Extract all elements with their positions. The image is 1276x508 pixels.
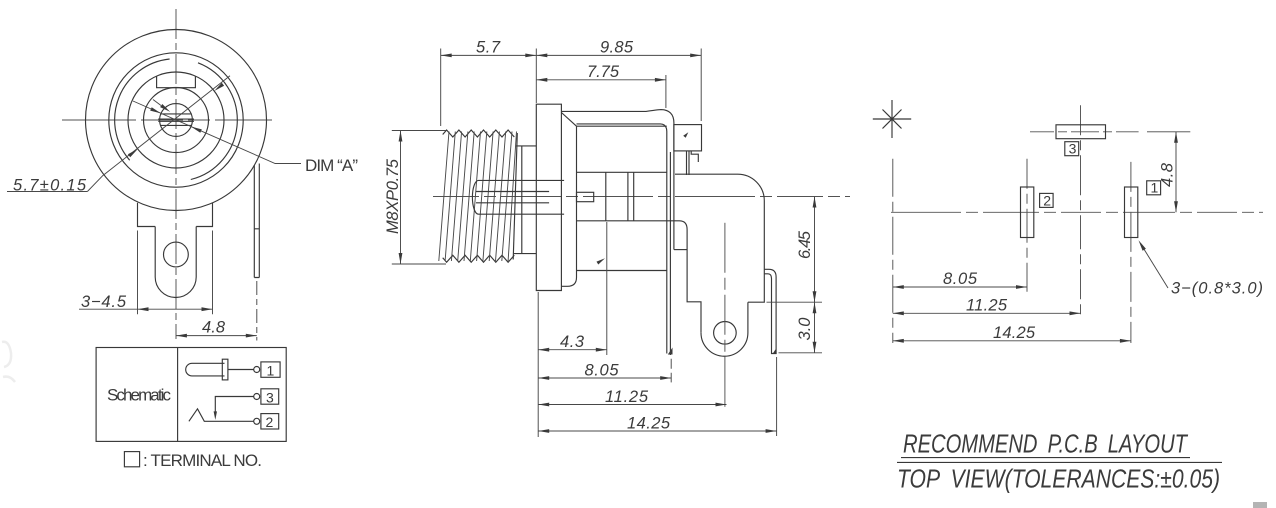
front view: lug hole bbox=[164, 242, 189, 267]
side view: thread bottom profile bbox=[443, 255, 515, 262]
side view: horizontal centerline bbox=[433, 196, 850, 198]
side view: 5.7 dimension bbox=[441, 49, 537, 127]
schematic: terminal 2 box bbox=[261, 414, 279, 429]
front view: broken arc ring right segment bbox=[191, 63, 237, 180]
side view: shell bottom tip mark bbox=[668, 348, 673, 355]
svg-text:14.25: 14.25 bbox=[993, 324, 1036, 342]
side view: 4.3 dimension bbox=[538, 349, 607, 351]
svg-text:1: 1 bbox=[1151, 180, 1159, 196]
schematic: terminal 1 circle bbox=[254, 367, 260, 373]
side view: M8XP0.75 dimension bbox=[392, 131, 446, 265]
side view: body top edge bbox=[577, 125, 667, 127]
svg-text:6.45: 6.45 bbox=[796, 230, 814, 259]
svg-text:11.25: 11.25 bbox=[966, 296, 1008, 314]
side view: lug hole bbox=[714, 322, 737, 345]
front view: pin slot lines bbox=[158, 114, 194, 126]
front view: schematic box bbox=[96, 348, 286, 442]
side view: body bottom with rounded corner bbox=[561, 271, 576, 287]
side view: internal divider lines bbox=[606, 172, 634, 220]
front view: DIM A leader line bbox=[133, 101, 301, 164]
svg-text:1: 1 bbox=[267, 362, 275, 378]
side view: 4.3 reference edge line bbox=[606, 222, 608, 355]
pcb view: terminal 1 label box bbox=[1147, 181, 1161, 195]
side view: lug centerline bbox=[724, 223, 726, 410]
pcb view: pad 3 centerline vertical bbox=[1080, 105, 1082, 319]
pcb view: pad 1 centerline bbox=[1130, 162, 1132, 343]
svg-text:Schematic: Schematic bbox=[107, 386, 172, 405]
pcb view: terminal 2 label box bbox=[1040, 193, 1054, 207]
schematic: terminal 3 box bbox=[261, 389, 279, 404]
pcb view: pad 2 bbox=[1021, 187, 1034, 238]
side view: body shoulder chamfer bbox=[561, 113, 576, 127]
front view: barrel circle (5.7 dia) bbox=[128, 72, 224, 168]
front view: schematic box divider bbox=[177, 348, 179, 442]
side view: internal chamber top bbox=[577, 171, 667, 173]
side view: 7.75 dimension bbox=[536, 75, 666, 108]
front view: center pin circle bbox=[160, 104, 193, 137]
front view: 4.8 dimension bbox=[256, 281, 258, 341]
svg-text:3−4.5: 3−4.5 bbox=[81, 293, 127, 311]
svg-text:5.7: 5.7 bbox=[476, 39, 501, 57]
front view: 5.7 dimension diagonal line bbox=[87, 76, 230, 192]
svg-text:4.8: 4.8 bbox=[1159, 162, 1177, 187]
side view: pin holder box bbox=[577, 192, 594, 201]
front view: 3-4.5 dimension bbox=[79, 231, 213, 315]
side view: back plate step bbox=[687, 151, 699, 175]
side view: 11.25 dimension bbox=[538, 404, 726, 406]
svg-text:TOP VIEW(TOLERANCES:±0.05): TOP VIEW(TOLERANCES:±0.05) bbox=[897, 464, 1220, 494]
side view: housing top edge and right side bbox=[675, 174, 764, 302]
front view: keyed insulator circle bbox=[144, 88, 209, 153]
side view: pin cavity capsule bbox=[472, 180, 564, 214]
side view: body front edge bbox=[576, 126, 578, 270]
side view: thread top profile bbox=[443, 130, 515, 137]
svg-text:: TERMINAL NO.: : TERMINAL NO. bbox=[143, 451, 262, 470]
front view: DIM A arrows bbox=[150, 107, 202, 133]
pcb view: terminal 3 label box bbox=[1065, 142, 1079, 156]
side view: internal chamber bottom bbox=[577, 221, 702, 333]
front view: 5.7 dimension arrows bbox=[128, 83, 224, 157]
side view: center pin lines bbox=[476, 192, 549, 203]
side view: internal leader arrow bbox=[597, 258, 606, 264]
pcb view: pad 1 bbox=[1125, 187, 1138, 238]
side view: terminal 3 pin edge bbox=[669, 152, 671, 355]
schematic: terminal 1 box bbox=[261, 362, 280, 377]
side view: back plate rectangle bbox=[674, 125, 702, 151]
pcb view: 4.8 dimension bbox=[1147, 132, 1190, 213]
front view: vertical centerline bbox=[175, 9, 177, 339]
svg-text:DIM “A”: DIM “A” bbox=[305, 156, 358, 175]
side view: 9.85 dimension bbox=[536, 49, 701, 122]
svg-text:11.25: 11.25 bbox=[605, 388, 649, 406]
svg-text:8.05: 8.05 bbox=[943, 270, 978, 288]
svg-text:3: 3 bbox=[1069, 141, 1077, 157]
pcb view: 14.25 dimension bbox=[893, 340, 1131, 342]
front view: keyway notch bbox=[157, 76, 196, 87]
front view: mounting lug with rounded bottom bbox=[155, 227, 196, 298]
side view: terminal 1 bent pin bbox=[764, 269, 776, 353]
svg-text:M8XP0.75: M8XP0.75 bbox=[384, 158, 402, 234]
front view: broken arc ring left segment bbox=[115, 59, 170, 160]
svg-text:14.25: 14.25 bbox=[627, 414, 671, 432]
side view: shell top inner line with bend bbox=[577, 124, 667, 354]
schematic: terminal 3 circle bbox=[254, 394, 260, 400]
schematic: spring contact symbol bbox=[189, 409, 254, 422]
side view: terminal 1 tip mark bbox=[773, 349, 776, 354]
pcb view: pad 3 bbox=[1056, 125, 1106, 139]
svg-text:RECOMMEND P.C.B LAYOUT: RECOMMEND P.C.B LAYOUT bbox=[903, 429, 1189, 459]
svg-text:2: 2 bbox=[266, 414, 274, 430]
side view: 8.05 dimension bbox=[670, 359, 672, 383]
svg-text:2: 2 bbox=[1043, 192, 1051, 208]
front view: side terminal pin bbox=[254, 164, 259, 278]
schematic: terminal 2 circle bbox=[254, 418, 260, 424]
svg-text:9.85: 9.85 bbox=[600, 39, 634, 57]
side view: thread hatch lines bbox=[439, 132, 517, 262]
svg-text:3−(0.8*3.0): 3−(0.8*3.0) bbox=[1171, 280, 1263, 298]
side view: thread runout neck bbox=[514, 146, 536, 254]
front view: inner shell circle bbox=[109, 53, 243, 187]
pcb view: pad 3 horizontal centerline bbox=[1030, 131, 1139, 133]
side view: body bottom edge bbox=[577, 270, 667, 272]
svg-text:4.8: 4.8 bbox=[202, 319, 226, 337]
side view: shell top outer line with bend bbox=[561, 110, 674, 250]
front view: horizontal centerline bbox=[62, 119, 272, 121]
side view: 3.0 dimension bbox=[813, 302, 817, 353]
side view: 14.25 dimension bbox=[538, 357, 776, 436]
side view: housing lug bbox=[701, 302, 748, 356]
svg-text:7.75: 7.75 bbox=[587, 63, 620, 81]
front view: outer body circle bbox=[86, 30, 267, 211]
terminal number legend bbox=[124, 452, 139, 467]
side view: rear pocket bottom bbox=[674, 249, 687, 251]
pcb view: 11.25 dimension bbox=[893, 312, 1081, 314]
schematic: tip contact symbol bbox=[186, 363, 225, 376]
side view: thread end flank bbox=[513, 133, 517, 260]
front view: extra slot arrow bbox=[160, 104, 170, 112]
side view: 6.45 dimension bbox=[767, 197, 823, 353]
front view: mounting tab outer bbox=[138, 203, 213, 227]
faint edge watermark bbox=[2, 342, 15, 382]
side view: left extension line bbox=[537, 292, 539, 437]
svg-text:4.3: 4.3 bbox=[560, 333, 585, 351]
svg-text:3: 3 bbox=[266, 389, 274, 405]
svg-text:8.05: 8.05 bbox=[585, 362, 620, 380]
pcb view: pad size leader bbox=[1141, 244, 1169, 289]
side view: flange plate bbox=[536, 104, 561, 290]
schematic: terminal 3 wire bbox=[215, 397, 254, 415]
pcb view: left reference line bbox=[892, 159, 894, 343]
page corner artifact bbox=[1253, 502, 1267, 508]
svg-text:3.0: 3.0 bbox=[796, 317, 814, 341]
pcb view: pad 2 centerline bbox=[1026, 159, 1028, 292]
pcb view: origin star bbox=[873, 100, 911, 138]
pcb view: horizontal centerline bbox=[891, 211, 1263, 213]
side view: terminal 3 bent tip mark bbox=[683, 132, 688, 138]
pcb view: 8.05 dimension bbox=[893, 286, 1027, 288]
